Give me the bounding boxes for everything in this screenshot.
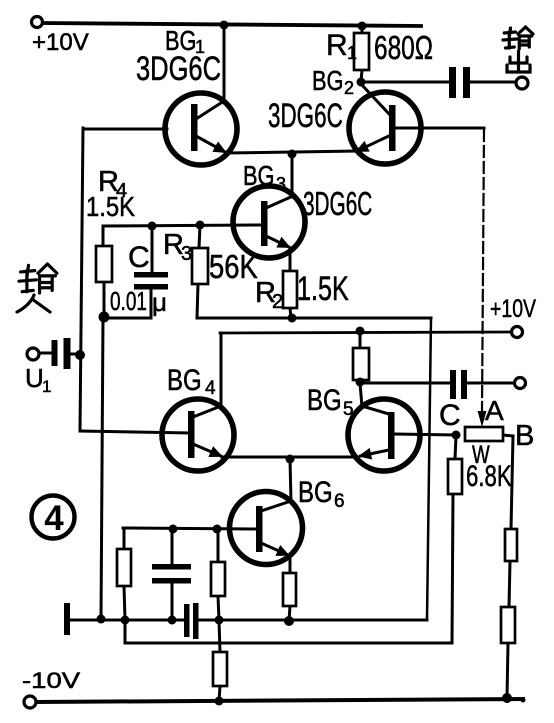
- svg-text:BG: BG: [298, 474, 333, 508]
- svg-text:C: C: [439, 399, 461, 432]
- svg-text:0.01: 0.01: [110, 286, 147, 316]
- svg-text:6.8K: 6.8K: [466, 459, 512, 493]
- svg-text:5: 5: [343, 399, 354, 420]
- svg-text:-10V: -10V: [22, 669, 81, 694]
- svg-text:1.5K: 1.5K: [86, 190, 136, 222]
- svg-text:4: 4: [44, 499, 64, 538]
- svg-text:BG: BG: [312, 65, 344, 96]
- svg-text:1: 1: [42, 377, 51, 396]
- svg-text:6: 6: [334, 491, 345, 512]
- svg-text:2: 2: [272, 291, 283, 313]
- svg-text:1: 1: [347, 43, 357, 63]
- svg-text:+10V: +10V: [32, 29, 89, 56]
- svg-text:B: B: [515, 420, 534, 452]
- svg-text:C: C: [128, 241, 150, 274]
- svg-text:4: 4: [205, 378, 216, 399]
- svg-text:56K: 56K: [209, 250, 258, 286]
- svg-text:BG: BG: [307, 382, 342, 416]
- svg-text:2: 2: [344, 78, 354, 98]
- svg-text:BG: BG: [167, 362, 202, 396]
- svg-text:BG: BG: [243, 160, 275, 191]
- svg-text:R: R: [326, 29, 348, 62]
- svg-text:3DG6C: 3DG6C: [303, 185, 372, 222]
- svg-text:3: 3: [181, 243, 192, 265]
- svg-text:3DG6C: 3DG6C: [268, 97, 343, 135]
- svg-text:+10V: +10V: [490, 295, 536, 323]
- svg-text:μ: μ: [152, 287, 167, 317]
- svg-text:U: U: [25, 363, 44, 393]
- svg-text:3DG6C: 3DG6C: [136, 51, 221, 88]
- svg-text:680Ω: 680Ω: [374, 31, 433, 67]
- svg-text:A: A: [485, 395, 504, 426]
- svg-text:1.5K: 1.5K: [297, 270, 349, 308]
- svg-text:3: 3: [276, 174, 286, 194]
